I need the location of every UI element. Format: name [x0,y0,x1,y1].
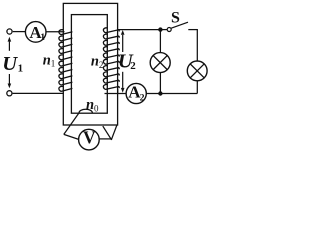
svg-text:U: U [2,53,18,75]
svg-text:1: 1 [40,32,45,43]
svg-text:S: S [171,10,180,27]
svg-text:2: 2 [140,92,145,103]
svg-text:1: 1 [51,59,56,69]
svg-text:1: 1 [18,63,24,75]
svg-text:n: n [43,52,51,68]
svg-text:2: 2 [99,60,104,70]
svg-text:2: 2 [130,60,136,72]
svg-text:n: n [91,53,99,69]
svg-text:0: 0 [94,103,99,113]
svg-text:n: n [86,97,94,113]
svg-text:V: V [83,128,96,148]
